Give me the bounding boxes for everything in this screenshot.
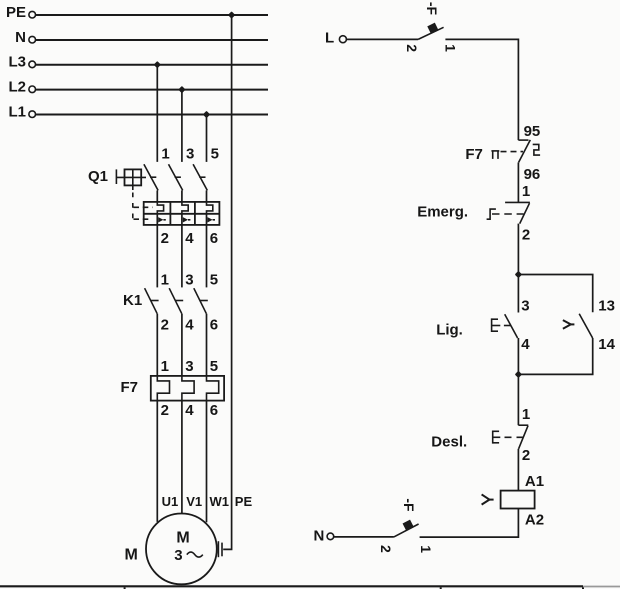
junction L3 tap [154,61,161,68]
svg-text:3: 3 [174,547,182,564]
overload relay F7 pin 6 label [210,402,218,419]
wire rail node A to Lig [517,275,519,313]
pushbutton Desl NC contact [518,425,528,449]
pushbutton Emerg label [417,203,468,220]
overload relay F7 heater pole 2 [182,376,194,401]
svg-text:N: N [15,29,26,46]
svg-text:F7: F7 [465,146,483,163]
breaker Q1 manual actuator [116,169,146,190]
motor M1 AC wave symbol [187,552,203,557]
wire Desl to coil [517,449,519,491]
breaker Q1 pin 2 label [161,230,169,247]
wire coil to bottom corner [420,509,519,538]
overload relay F7 pin 1 label [161,358,169,375]
svg-text:4: 4 [185,402,194,419]
wire Q1 pole1 to K1 [156,225,158,288]
svg-text:M: M [125,547,138,564]
svg-text:PE: PE [235,494,253,509]
pushbutton Desl dashed link [505,436,524,438]
motor terminal U1 label [162,494,179,509]
contactor K1 pole 2 contact [169,288,183,376]
svg-text:V1: V1 [186,494,202,509]
breaker Q1 thermal release pole 3 [207,202,213,214]
K1 aux contact 13-14 [579,314,592,338]
svg-text:13: 13 [598,298,615,315]
svg-text:2: 2 [161,402,169,419]
svg-text:M: M [176,530,189,547]
net L3 bus label [8,54,26,71]
wire fuse-switch to rail corner [445,39,518,140]
svg-text:Lig.: Lig. [436,321,463,338]
motor M1 outer label M [125,547,138,564]
motor M1 circle [146,514,217,585]
fuse-switch F top label -F (rotated) [424,2,440,16]
svg-text:5: 5 [210,272,218,289]
breaker Q1 pin 4 label [185,230,194,247]
wire L3 bus [36,64,268,66]
wire F7 to Emerg [517,162,519,202]
breaker Q1 pole 3 contact [193,164,207,202]
pushbutton Emerg NC contact [505,202,530,223]
svg-text:4: 4 [185,230,194,247]
motor terminal V1 label [186,494,202,509]
wire Emerg to node A [517,224,519,275]
svg-text:1: 1 [161,358,169,375]
breaker Q1 pin 6 label [210,230,218,247]
wire F7 to motor U1 [156,401,158,522]
contactor K1 pin 5 label [210,272,218,289]
svg-text:1: 1 [161,146,169,163]
contactor K1 pin 6 label [210,317,218,334]
K1 aux pin 14 label [598,336,615,353]
fuse-switch F bottom pin 2 label (rotated) [378,545,394,553]
pushbutton Emerg dashed link [492,213,524,215]
breaker Q1 release box [144,202,220,225]
contactor K1 pin 4 label [185,317,194,334]
junction PE tap [228,11,235,18]
motor terminal W1 label [210,494,230,509]
wire branch top [518,275,592,313]
overload relay F7 box [151,376,224,401]
overload relay F7 pin 2 label [161,402,169,419]
svg-text:1: 1 [418,545,434,553]
junction L2 tap [178,86,185,93]
wire L3 drop to Q1 pole 1 [156,65,158,162]
Desl pin 2 label [522,447,530,464]
fuse-switch F bottom pin 1 label (rotated) [418,545,434,553]
breaker Q1 pole 1 contact [144,164,158,202]
wire L2 drop to Q1 pole 2 [181,90,183,162]
svg-text:A2: A2 [525,512,544,529]
F7 trip actuator symbol [491,151,499,159]
svg-text:2: 2 [161,230,169,247]
breaker Q1 label [88,168,108,185]
wire PE bus [36,14,268,16]
svg-text:K1: K1 [123,292,142,309]
terminal circle PE [29,11,36,18]
svg-text:2: 2 [404,44,420,52]
terminal circle L [339,36,346,43]
contactor K1 pole 3 contact [194,288,208,376]
svg-text:PE: PE [6,4,26,21]
overload relay F7 pin 4 label [185,402,194,419]
F7 NC contact pin 96 label [524,166,541,183]
net N terminal label (control) [314,528,325,545]
overload relay F7 pin 5 label [210,358,218,375]
overload relay F7 pin 3 label [185,358,193,375]
svg-text:6: 6 [210,402,218,419]
breaker Q1 magnetic release pole 1 [157,214,166,225]
svg-text:3: 3 [185,272,193,289]
svg-text:Q1: Q1 [88,168,108,185]
breaker Q1 magnetic release pole 2 [182,214,191,225]
svg-text:1: 1 [443,44,459,52]
Emerg pin 2 label [522,226,530,243]
Emerg pin 1 label [522,183,530,200]
net PE bus label [6,4,26,21]
contactor K1 pin 2 label [161,317,169,334]
svg-text:Desl.: Desl. [431,434,467,451]
fuse-switch F top pin 2 label (rotated) [404,44,420,52]
svg-text:3: 3 [186,146,194,163]
breaker Q1 magnetic release pole 3 [207,214,216,225]
K1 aux actuator Y symbol [563,320,575,329]
terminal circle L3 [29,61,36,68]
wire F7 to motor V1 [181,401,183,514]
breaker Q1 thermal release pole 2 [182,202,188,214]
wire F7 to motor W1 [206,401,208,523]
svg-text:L2: L2 [8,79,26,96]
svg-text:1: 1 [522,183,530,200]
svg-text:95: 95 [524,123,541,140]
fuse-switch F top fuse square [427,23,438,34]
wire branch bottom [518,338,592,374]
svg-text:96: 96 [524,166,541,183]
motor M1 inner label 3 [174,547,182,564]
wire L1 bus [36,114,268,116]
title block divider tick 3 [582,587,584,589]
breaker Q1 pin 1 label [161,146,169,163]
overload relay F7 label [121,379,139,396]
svg-text:L1: L1 [8,103,26,120]
coil K1 pin A1 label [525,473,544,490]
K1 aux pin 13 label [598,298,615,315]
contactor K1 pole 1 contact [145,288,159,376]
terminal circle N (control) [327,533,334,540]
fuse-switch F bottom blade [394,524,419,537]
svg-text:1: 1 [522,406,530,423]
F7 NC contact pin 95 label [524,123,541,140]
breaker Q1 pin 3 label [186,146,194,163]
breaker Q1 pole 2 contact [169,164,183,202]
contactor K1 pin 1 label [161,272,169,289]
net L2 bus label [8,79,26,96]
svg-text:3: 3 [521,298,529,315]
svg-text:2: 2 [522,447,530,464]
svg-text:W1: W1 [210,494,230,509]
title block top line (light part) [583,586,620,588]
pushbutton Emerg actuator [487,209,496,219]
svg-text:2: 2 [161,317,169,334]
svg-text:A1: A1 [525,473,544,490]
net L1 bus label [8,103,26,120]
fuse-switch F bottom label -F (rotated) [401,498,417,512]
svg-text:5: 5 [211,146,219,163]
wire L2 bus [36,89,268,91]
F7 trip dashed link [501,151,524,153]
wire Lig to node B [517,338,519,374]
svg-text:14: 14 [598,336,615,353]
breaker Q1 thermal release pole 1 [157,202,163,214]
wire node B to Desl [517,374,519,425]
svg-text:N: N [314,528,325,545]
terminal circle L1 [29,111,36,118]
pushbutton Lig dashed link [504,325,511,327]
coil K1 Y symbol [482,494,494,504]
overload relay F7 heater pole 3 [207,376,219,401]
pushbutton Desl label [431,434,467,451]
net L terminal label [325,30,334,47]
Lig pin 4 label [521,336,530,353]
svg-text:6: 6 [210,230,218,247]
svg-text:Emerg.: Emerg. [417,203,468,220]
node A junction dot [515,271,522,278]
wire Q1 pole2 to K1 [181,225,183,288]
svg-text:4: 4 [521,336,530,353]
Desl pin 1 label [522,406,530,423]
wire L1 drop to Q1 pole 3 [206,115,208,162]
pushbutton Lig NO contact [505,314,518,338]
coil K1 box [501,491,535,509]
title block top line [0,585,583,587]
svg-text:4: 4 [185,317,194,334]
breaker Q1 mechanical link (dashed) [133,193,153,221]
wire PE drop to motor [223,15,231,549]
svg-text:2: 2 [522,226,530,243]
wire Q1 pole3 to K1 [206,225,208,288]
contactor K1 pin 3 label [185,272,193,289]
Lig pin 3 label [521,298,529,315]
wire N bus [36,39,268,41]
motor M1 inner label M [176,530,189,547]
fuse-switch F top blade [418,27,444,39]
svg-text:6: 6 [210,317,218,334]
node B junction dot [515,371,522,378]
overload relay F7 heater pole 1 [157,376,169,401]
svg-text:-F: -F [401,498,417,512]
F7 thermal symbol (control) [533,144,540,155]
svg-text:L: L [325,30,334,47]
title block divider tick 2 [440,587,442,589]
pushbutton Lig label [436,321,463,338]
coil K1 pin A2 label [525,512,544,529]
motor terminal PE label [235,494,253,509]
svg-text:5: 5 [210,358,218,375]
svg-text:1: 1 [161,272,169,289]
svg-text:U1: U1 [162,494,179,509]
svg-text:-F: -F [424,2,440,16]
pushbutton Desl actuator E [493,431,501,444]
wire L to fuse-switch F [346,38,418,40]
fuse-switch F top pin 1 label (rotated) [443,44,459,52]
svg-text:F7: F7 [121,379,139,396]
F7 NC contact (control) [518,140,530,163]
F7 label (control) [465,146,483,163]
net N bus label [15,29,26,46]
fuse-switch F bottom fuse square [403,520,414,531]
svg-text:3: 3 [185,358,193,375]
terminal circle L2 [29,86,36,93]
breaker Q1 pin 5 label [211,146,219,163]
pushbutton Lig actuator E [492,318,501,332]
title block divider tick 1 [124,587,126,589]
junction L1 tap [203,111,210,118]
svg-text:L3: L3 [8,54,26,71]
terminal circle N [29,36,36,43]
contactor K1 label [123,292,142,309]
motor M1 PE terminal bars [218,541,222,557]
svg-text:2: 2 [378,545,394,553]
wire N terminal to fuse-switch [334,536,394,538]
